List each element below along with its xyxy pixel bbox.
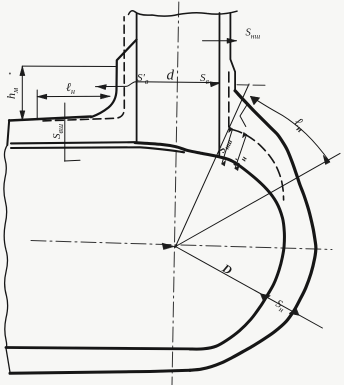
radial line L2 (28.7 deg)	[176, 153, 341, 246]
h_m dimension line	[21, 66, 23, 120]
paper speck	[9, 73, 11, 75]
header inner top line (lower of double)	[11, 147, 184, 152]
S_vsh leader line	[64, 103, 66, 161]
svg-text:d: d	[167, 68, 175, 84]
inner bulb curve (inner surface of bend/head)	[135, 143, 284, 349]
arrow at lower end of l_n arc	[323, 155, 330, 164]
leader dash continuation to the right	[237, 84, 267, 87]
branch left outer wall	[136, 13, 138, 142]
h_m top reference line	[22, 65, 115, 67]
branch right dashed (raw surface) + dashed bend arc	[229, 72, 284, 200]
arrow at upper end of l_n arc	[250, 96, 259, 105]
S_n' small dimension line (radial at 47deg)	[235, 135, 247, 169]
branch right outer wall (straight part with weld jog)	[230, 13, 235, 91]
outer bend/head arc	[190, 91, 316, 371]
branch left inner wall (dashed)	[43, 17, 124, 121]
vertical centerline of branch pipe	[172, 2, 179, 385]
bore leader line S_v' - d - S_v	[96, 82, 220, 87]
l_n left dimension line	[37, 95, 110, 97]
header inner top line (upper of double)	[11, 142, 134, 143]
arrowhead on horizontal centerline at center	[162, 243, 175, 250]
header top outer line	[9, 117, 91, 121]
left break line (wavy)	[4, 145, 10, 372]
S_nsh small dimension line (radial at 59deg)	[222, 129, 233, 164]
top break line (wavy)	[129, 11, 238, 16]
horizontal centerline of header	[31, 241, 332, 250]
header inner bottom line	[6, 348, 190, 349]
short mark line right of S_vsh leader	[65, 159, 81, 162]
outer arc (outer surface of bend/head) + bottom outer wall	[10, 370, 190, 373]
radial line L1 (63 deg)	[176, 84, 250, 247]
l_n dimension arc (top right)	[251, 97, 330, 162]
open arrow on radial L1	[240, 104, 248, 127]
radial line L3 (D / S_n dimension line)	[176, 247, 323, 329]
S_nsh top dimension line	[203, 40, 237, 42]
step left face	[7, 120, 9, 145]
branch bore right wall	[218, 13, 220, 155]
l_n left extension line	[36, 90, 38, 118]
S_n thickness arrows on L3	[261, 294, 271, 301]
center point	[174, 245, 177, 248]
weld collar outline left	[91, 40, 137, 118]
